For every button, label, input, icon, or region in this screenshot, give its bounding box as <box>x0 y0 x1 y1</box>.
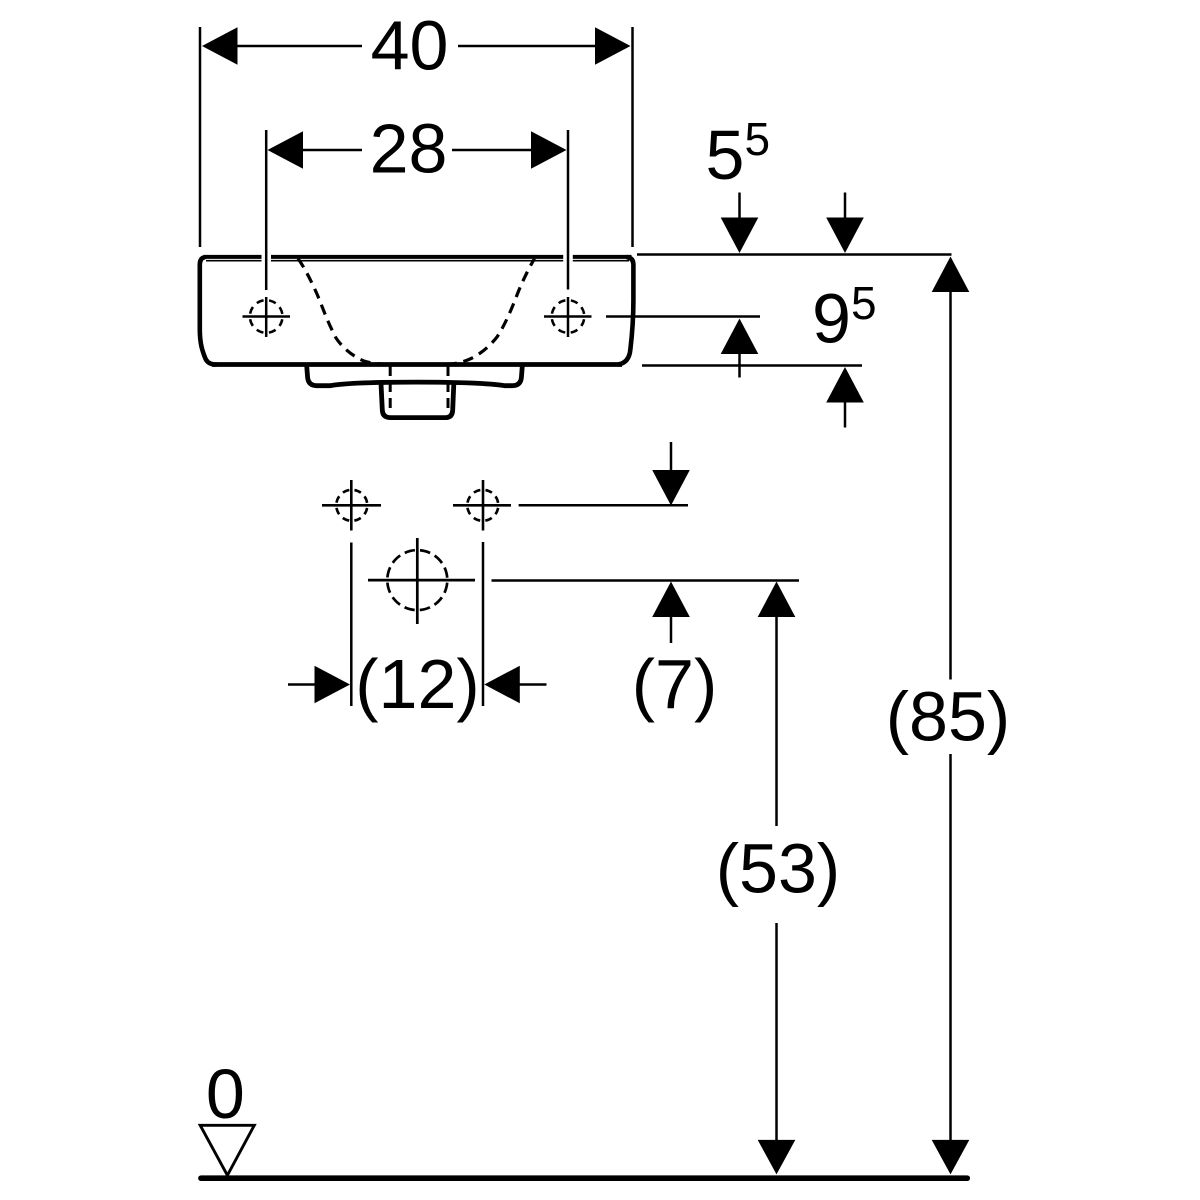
svg-text:0: 0 <box>206 1055 245 1133</box>
svg-text:28: 28 <box>370 110 448 188</box>
svg-text:(7): (7) <box>632 645 718 723</box>
svg-text:(85): (85) <box>886 678 1010 756</box>
svg-text:(53): (53) <box>716 830 840 908</box>
svg-text:40: 40 <box>371 7 449 85</box>
svg-text:(12): (12) <box>355 645 479 723</box>
